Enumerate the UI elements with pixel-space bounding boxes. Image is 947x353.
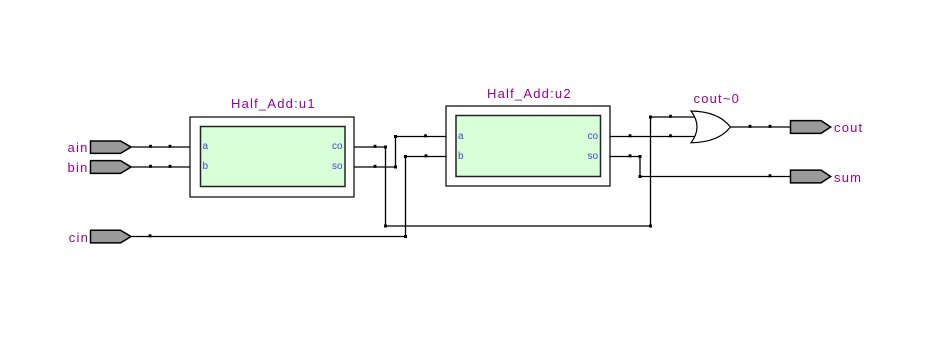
wire ain to U1.a [131, 145, 190, 148]
half adder U1 inner body [201, 127, 346, 187]
label cout [834, 121, 863, 134]
pin label U2.so [578, 152, 598, 162]
pin label U1.co [323, 142, 343, 152]
pin label U1.b [203, 162, 209, 172]
wire U1.co to or gate top input [354, 115, 695, 228]
wire cin to U2.b [131, 154, 446, 238]
label Half_Add:u2 [487, 87, 572, 100]
input port ain [91, 141, 132, 153]
input port cin [91, 230, 132, 243]
output port sum [791, 170, 831, 183]
label bin [0, 161, 89, 174]
output port cout [791, 121, 831, 134]
wire or gate output to cout port [730, 125, 790, 128]
wire U2.so to sum port [610, 154, 791, 178]
label ain [0, 141, 89, 154]
pin label U2.b [458, 152, 464, 162]
wire bin to U1.b [131, 165, 190, 168]
wire U1.so to U2.a [354, 134, 446, 168]
label cin [0, 231, 89, 244]
pin label U1.a [203, 142, 209, 152]
input port bin [91, 161, 132, 174]
label cout~0 [694, 92, 741, 105]
label sum [834, 171, 862, 184]
wire U2.co to or gate bottom input [610, 134, 695, 137]
half adder U2 inner body [456, 116, 601, 177]
half adder U2 outer box [446, 106, 610, 186]
label Half_Add:u1 [231, 97, 316, 110]
or gate cout~0 [691, 111, 730, 143]
pin label U2.co [578, 132, 598, 142]
half adder U1 outer box [190, 117, 354, 197]
pin label U1.so [323, 162, 343, 172]
pin label U2.a [458, 132, 464, 142]
